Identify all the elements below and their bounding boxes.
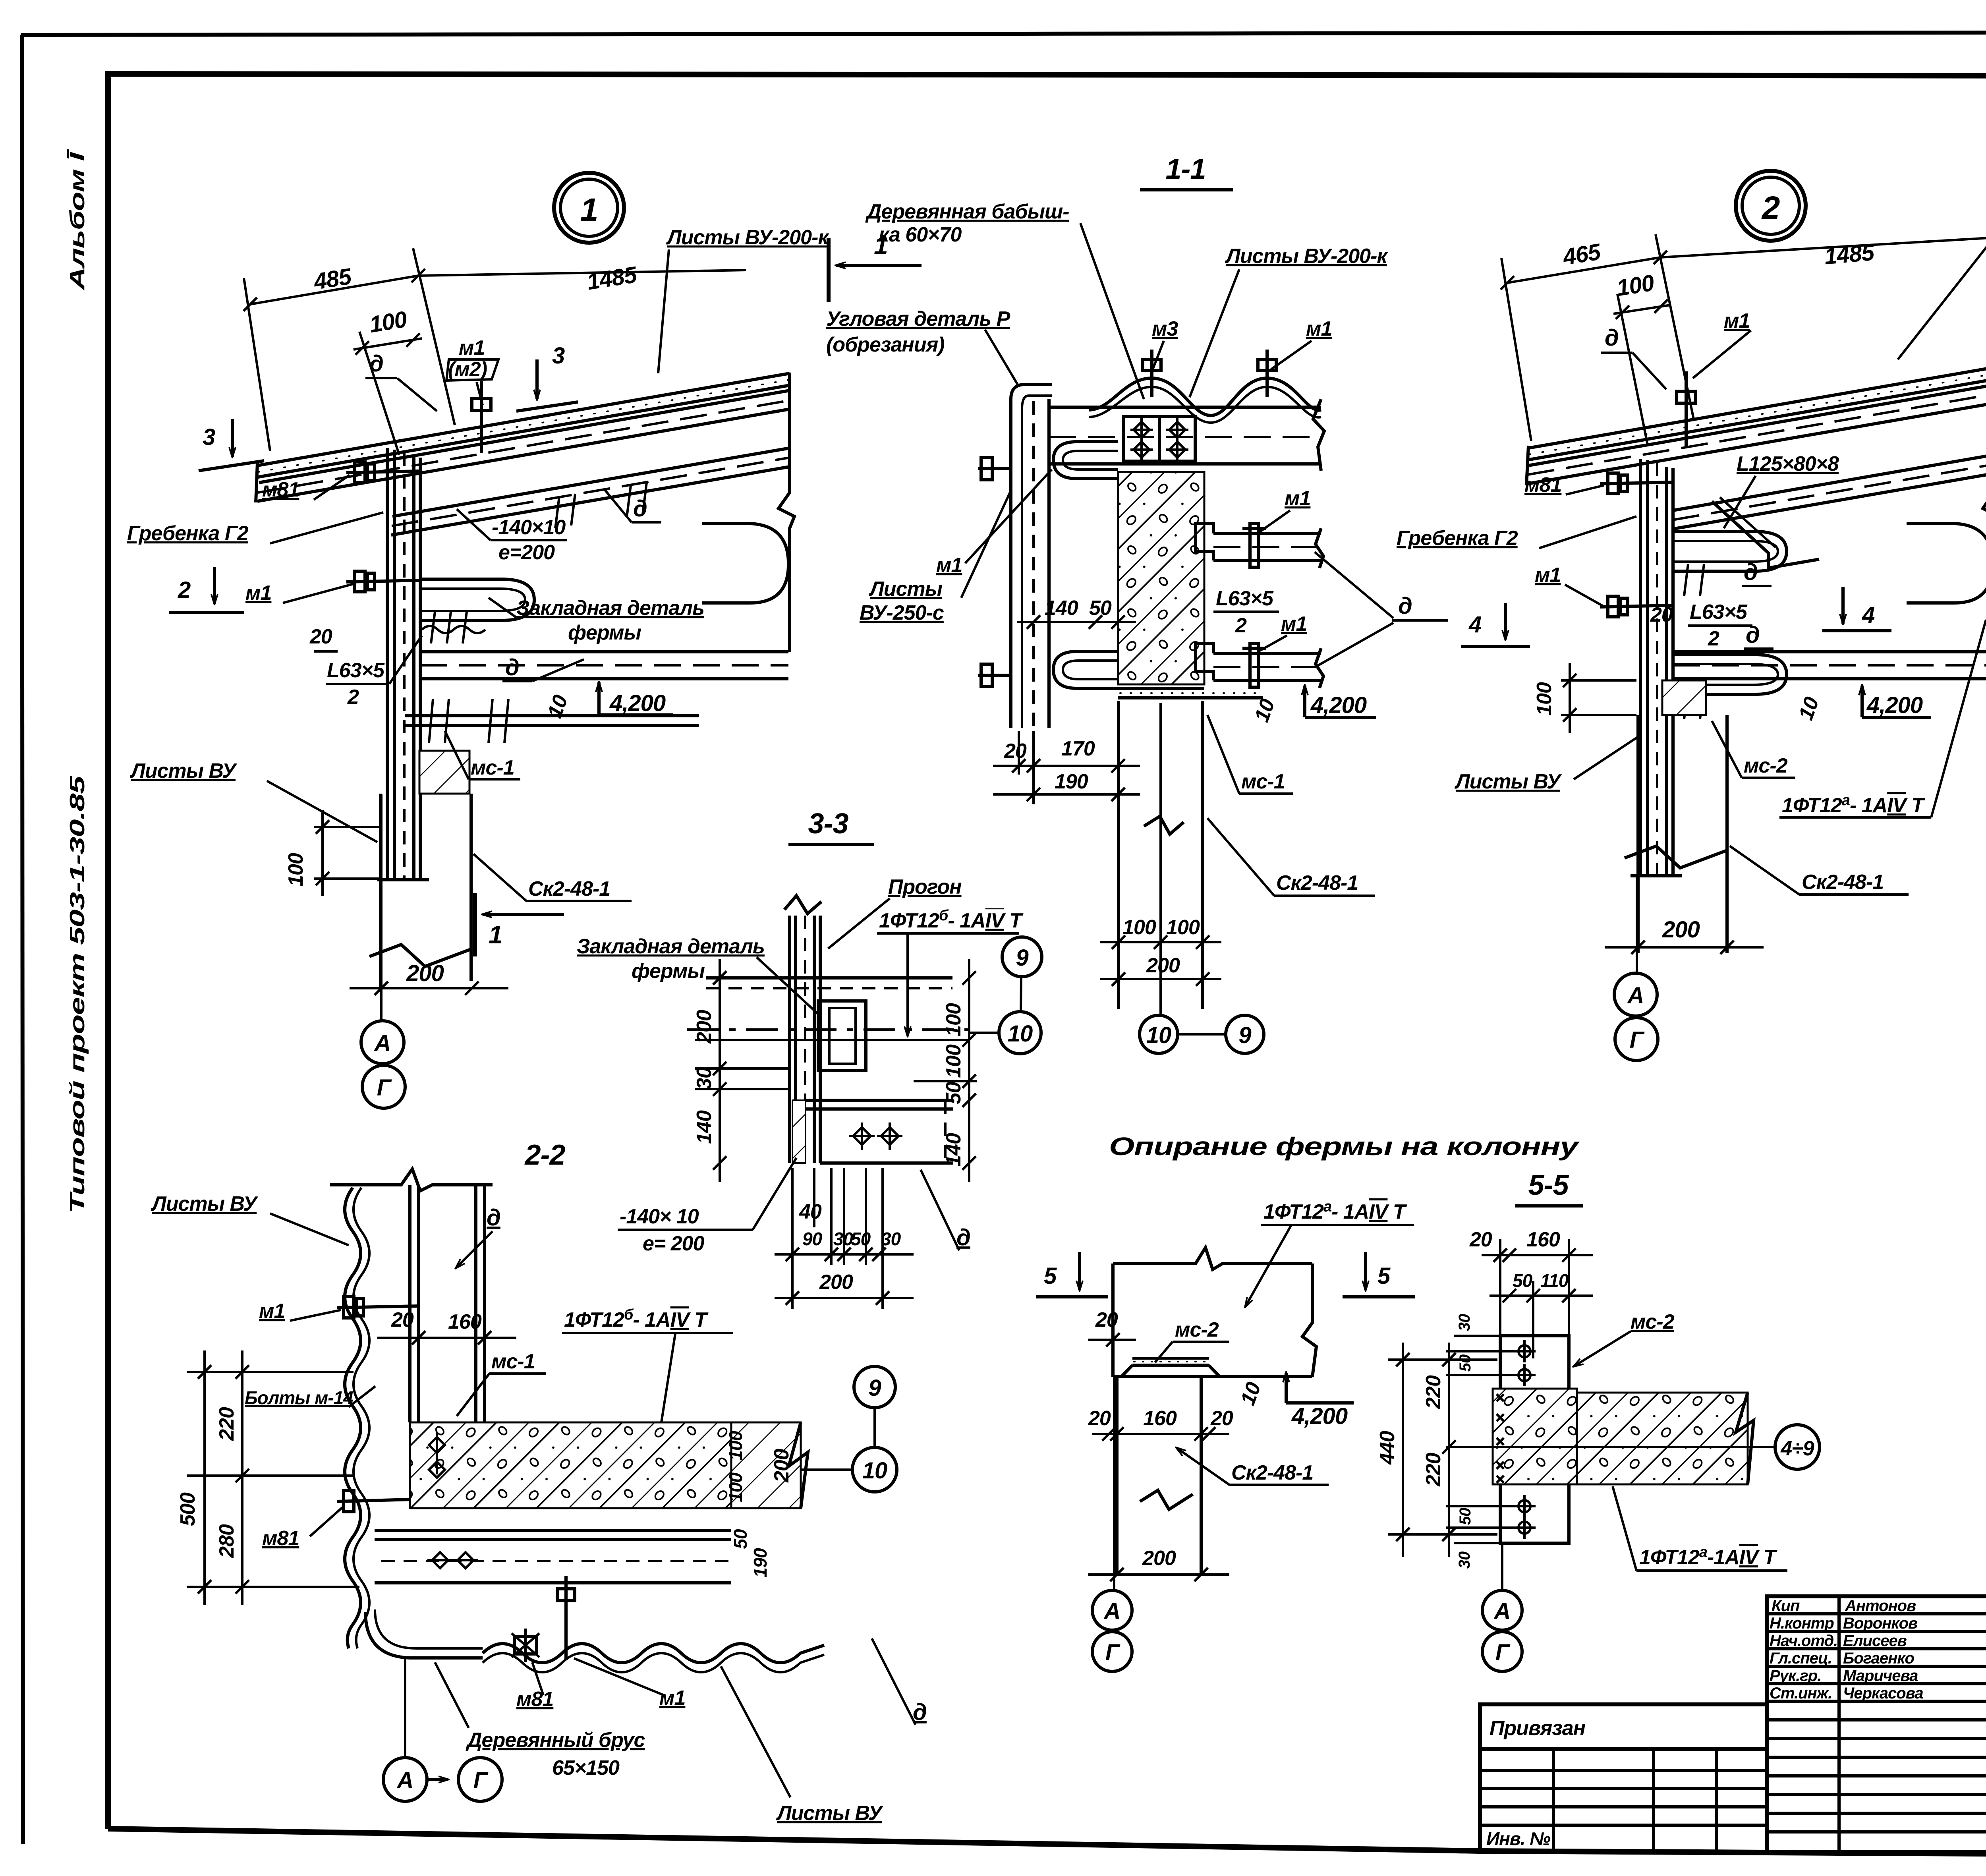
svg-text:2: 2: [1761, 190, 1780, 226]
svg-text:90: 90: [802, 1229, 823, 1249]
weld hatch under U detail: [422, 626, 485, 633]
svg-text:м1: м1: [659, 1687, 685, 1710]
svg-text:А: А: [374, 1030, 391, 1056]
svg-text:-140× 10: -140× 10: [620, 1205, 699, 1228]
svg-text:А: А: [396, 1768, 413, 1793]
plate bolts: [427, 1552, 478, 1568]
svg-text:190: 190: [1055, 770, 1088, 793]
lower bracket plate: [806, 1099, 953, 1102]
svg-text:10: 10: [1008, 1021, 1033, 1047]
svg-text:м81: м81: [516, 1688, 553, 1711]
svg-text:1ФТ12а- 1АIV Т: 1ФТ12а- 1АIV Т: [1782, 792, 1926, 817]
dim line 100: [354, 338, 422, 350]
svg-text:мс-2: мс-2: [1631, 1310, 1675, 1333]
svg-text:100: 100: [725, 1431, 746, 1461]
svg-text:Закладная деталь: Закладная деталь: [516, 597, 704, 620]
svg-text:9: 9: [1238, 1022, 1251, 1048]
svg-text:100: 100: [942, 1003, 965, 1037]
axis bubble A: [1092, 1590, 1132, 1630]
svg-text:мс-2: мс-2: [1175, 1318, 1219, 1341]
svg-text:30: 30: [1456, 1314, 1473, 1331]
svg-text:50: 50: [851, 1229, 871, 1249]
svg-text:20: 20: [1469, 1228, 1492, 1251]
svg-text:20: 20: [1004, 740, 1027, 763]
beam end bulb: [1907, 524, 1986, 603]
wall post channel: [1639, 459, 1642, 876]
svg-text:Воронков: Воронков: [1843, 1615, 1918, 1632]
svg-text:Елисеев: Елисеев: [1843, 1632, 1907, 1650]
axis bubble A: [1482, 1590, 1522, 1630]
detail marker circle 1: [554, 173, 624, 243]
outer left border line: [22, 35, 23, 1844]
column head pad: [419, 751, 469, 794]
svg-text:м81: м81: [262, 1527, 299, 1550]
axis dash line: [687, 1028, 969, 1031]
bolt m1 mid: [346, 580, 420, 582]
embedded U detail: [421, 579, 534, 620]
svg-text:Гребенка Г2: Гребенка Г2: [1397, 527, 1518, 550]
axis bubble G: [1482, 1632, 1522, 1671]
svg-text:9: 9: [868, 1375, 881, 1401]
svg-text:мс-2: мс-2: [1744, 754, 1788, 777]
plate ms-2: [1500, 1336, 1569, 1543]
hatched plate strip: [792, 1100, 806, 1163]
left bolts with nuts: [978, 467, 1011, 470]
svg-text:м1: м1: [1724, 309, 1750, 332]
callout d double leader: [1315, 552, 1393, 618]
svg-text:Листы ВУ: Листы ВУ: [1454, 770, 1562, 793]
svg-text:д: д: [505, 655, 519, 680]
svg-text:1ФТ12а-1АIV Т: 1ФТ12а-1АIV Т: [1639, 1544, 1777, 1569]
axis bubble G: [362, 1065, 405, 1108]
extension lines: [1501, 258, 1531, 441]
beam end bulb: [702, 524, 788, 603]
rafter bolt ticks: [555, 483, 647, 528]
column embedded plate bottom: [1118, 687, 1204, 690]
detail marker circle 2: [1736, 171, 1806, 241]
svg-text:Кип: Кип: [1772, 1597, 1800, 1615]
svg-text:200: 200: [406, 960, 444, 986]
svg-text:Ск2-48-1: Ск2-48-1: [1231, 1461, 1313, 1484]
svg-text:L63×5: L63×5: [327, 659, 385, 682]
svg-text:L125×80×8: L125×80×8: [1737, 452, 1839, 475]
svg-text:e= 200: e= 200: [643, 1232, 705, 1255]
svg-text:160: 160: [1143, 1407, 1177, 1430]
svg-text:40: 40: [799, 1200, 822, 1223]
svg-text:Ск2-48-1: Ск2-48-1: [528, 877, 610, 900]
section cut 1 top: [827, 238, 831, 302]
svg-text:д: д: [487, 1205, 500, 1231]
inner frame bottom line: [108, 1829, 1986, 1857]
corrugated roof sheet band: [1528, 367, 1986, 448]
svg-text:50: 50: [942, 1082, 965, 1104]
svg-text:170: 170: [1061, 737, 1095, 760]
svg-text:2-2: 2-2: [524, 1139, 565, 1171]
top chord beam section: [1049, 406, 1321, 409]
svg-text:Привязан: Привязан: [1489, 1717, 1586, 1740]
svg-text:160: 160: [1526, 1228, 1560, 1251]
svg-text:140: 140: [1045, 597, 1078, 620]
svg-text:Альбом Ī: Альбом Ī: [66, 148, 89, 291]
svg-text:А: А: [1103, 1598, 1121, 1624]
svg-text:20: 20: [1650, 603, 1673, 626]
svg-text:мс-1: мс-1: [1241, 770, 1285, 793]
column: [1115, 1377, 1119, 1575]
svg-text:Прогон: Прогон: [888, 875, 962, 898]
svg-text:1ФТ12б- 1АIV Т: 1ФТ12б- 1АIV Т: [879, 907, 1024, 932]
bottom wavy sheet: [483, 1644, 824, 1663]
svg-text:д: д: [369, 351, 383, 377]
svg-text:20: 20: [1088, 1407, 1111, 1430]
extension verticals: [1018, 731, 1020, 775]
column below: [379, 794, 382, 992]
svg-text:e=200: e=200: [498, 541, 555, 564]
svg-text:1-1: 1-1: [1165, 153, 1206, 185]
svg-text:Г: Г: [1105, 1640, 1121, 1665]
svg-text:Маричева: Маричева: [1843, 1667, 1918, 1685]
svg-text:5: 5: [1044, 1263, 1057, 1289]
axis bubble A: [1614, 973, 1657, 1016]
corrugated wave top: [1089, 378, 1321, 415]
vertical break line right: [1983, 366, 1986, 652]
svg-text:50: 50: [1457, 1508, 1474, 1525]
extension line mid: [413, 248, 455, 425]
left margin vertical captions: [66, 148, 89, 1213]
svg-text:1ФТ12б- 1АIV Т: 1ФТ12б- 1АIV Т: [564, 1306, 709, 1331]
svg-text:4÷9: 4÷9: [1780, 1437, 1814, 1460]
svg-text:А: А: [1493, 1598, 1511, 1624]
title block: [1480, 1580, 1986, 1857]
svg-text:д: д: [1398, 593, 1412, 619]
ms-2 plate: [1132, 1364, 1209, 1367]
svg-text:220: 220: [215, 1407, 238, 1441]
svg-text:9: 9: [1016, 945, 1028, 971]
bobbin box: [818, 1001, 866, 1070]
rafter band d: [392, 448, 790, 516]
svg-text:20: 20: [309, 625, 332, 648]
axis line: [380, 794, 383, 1020]
plate bolts: [1513, 1340, 1536, 1539]
svg-text:2: 2: [347, 686, 359, 709]
left table row line under Привязан: [1480, 1747, 1767, 1751]
svg-text:Инв. №: Инв. №: [1486, 1828, 1551, 1849]
svg-text:м1: м1: [1306, 317, 1332, 340]
dim line 465-1485: [1507, 234, 1986, 283]
support plate lines: [405, 714, 699, 717]
axis bubble G: [1615, 1018, 1658, 1061]
svg-text:3: 3: [552, 343, 565, 369]
vertical wavy sheet: [345, 1188, 361, 1648]
roof bolts m3 m1: [1150, 350, 1153, 397]
svg-text:м1: м1: [245, 582, 271, 605]
svg-text:2: 2: [178, 577, 191, 603]
svg-text:-140×10: -140×10: [492, 516, 566, 539]
ridge bolt m1: [1685, 371, 1688, 447]
svg-text:140: 140: [693, 1110, 716, 1144]
svg-text:1ФТ12а- 1АIV Т: 1ФТ12а- 1АIV Т: [1263, 1198, 1407, 1223]
svg-text:д: д: [633, 496, 647, 522]
svg-text:200: 200: [770, 1449, 793, 1483]
svg-text:280: 280: [215, 1524, 238, 1558]
top chord band: [259, 390, 790, 483]
svg-text:110: 110: [1540, 1270, 1569, 1291]
svg-text:1: 1: [489, 920, 502, 949]
svg-text:Рук.гр.: Рук.гр.: [1770, 1667, 1821, 1685]
svg-text:А: А: [1627, 983, 1644, 1009]
svg-text:Закладная деталь: Закладная деталь: [577, 935, 765, 958]
item bubbles 10-9: [1140, 1015, 1178, 1053]
elevation 4.200: [597, 682, 601, 715]
svg-text:2: 2: [1235, 614, 1247, 637]
column below: [1117, 701, 1120, 1009]
svg-text:10: 10: [1146, 1022, 1171, 1048]
svg-text:Угловая деталь Р: Угловая деталь Р: [826, 307, 1010, 330]
svg-text:100: 100: [1166, 916, 1200, 939]
svg-text:фермы: фермы: [568, 621, 641, 644]
svg-text:м1: м1: [459, 336, 485, 359]
dim 200 bottom: [350, 987, 508, 989]
svg-text:Черкасова: Черкасова: [1843, 1685, 1923, 1702]
svg-text:10: 10: [862, 1458, 887, 1484]
svg-text:ВУ-250-с: ВУ-250-с: [860, 601, 944, 624]
item bubble 10: [999, 1012, 1041, 1054]
bottom chord beam: [1673, 650, 1986, 653]
embedded U detail upper: [1674, 531, 1787, 571]
beam d section upper: [1213, 532, 1321, 535]
svg-text:4,200: 4,200: [1291, 1403, 1348, 1429]
svg-text:4: 4: [1468, 612, 1482, 638]
svg-text:Листы ВУ: Листы ВУ: [129, 759, 238, 782]
names table outline: [1767, 1596, 1986, 1852]
item bubble 9: [1002, 937, 1042, 977]
svg-text:м81: м81: [262, 478, 299, 501]
bracket bolts: [849, 1123, 902, 1150]
column below: [1636, 715, 1640, 953]
extension line left: [244, 278, 270, 451]
svg-text:м1: м1: [936, 554, 962, 577]
extension line 100 left: [359, 332, 399, 455]
svg-text:200: 200: [819, 1271, 853, 1294]
svg-text:м1: м1: [259, 1300, 285, 1323]
bottom bend plate: [365, 1612, 483, 1658]
left table column lines: [1552, 1749, 1555, 1852]
svg-text:д: д: [1605, 325, 1619, 351]
hatched column block: [1493, 1389, 1577, 1484]
svg-text:м3: м3: [1152, 317, 1178, 340]
svg-text:Листы ВУ: Листы ВУ: [151, 1192, 259, 1215]
svg-text:ка 60×70: ка 60×70: [879, 223, 962, 246]
svg-text:200: 200: [1146, 954, 1180, 977]
svg-text:Г: Г: [377, 1075, 392, 1101]
svg-text:Болты м-14: Болты м-14: [245, 1387, 353, 1408]
svg-text:д: д: [1744, 559, 1758, 585]
svg-text:440: 440: [1376, 1431, 1399, 1465]
left corner bracket: [1011, 384, 1052, 728]
svg-text:Деревянный брус: Деревянный брус: [466, 1729, 645, 1752]
svg-text:30: 30: [1456, 1551, 1473, 1569]
svg-text:220: 220: [1422, 1453, 1445, 1487]
svg-text:20: 20: [1095, 1308, 1118, 1331]
svg-text:4,200: 4,200: [1866, 692, 1923, 718]
bolt m81: [1600, 482, 1673, 484]
column break zigzag: [369, 945, 473, 966]
svg-text:4,200: 4,200: [1310, 692, 1367, 718]
svg-text:140: 140: [942, 1133, 965, 1167]
svg-text:5-5: 5-5: [1528, 1169, 1569, 1201]
svg-text:100: 100: [284, 853, 307, 887]
rafter band d: [1673, 455, 1986, 510]
bolt m1: [337, 1306, 419, 1308]
elevation 4.200: [1860, 686, 1864, 717]
U bolts: [1053, 442, 1118, 479]
names table row lines: [1767, 1612, 1986, 1615]
top chord band: [1528, 385, 1986, 466]
bolt leader lines: [1446, 1350, 1518, 1352]
axis bubbles A->G: [383, 1758, 427, 1801]
svg-text:Г: Г: [1630, 1027, 1645, 1053]
svg-text:Богаенко: Богаенко: [1843, 1650, 1915, 1667]
svg-text:Ск2-48-1: Ск2-48-1: [1276, 871, 1358, 895]
column bolts in slab: [429, 1432, 445, 1478]
svg-text:2: 2: [1708, 627, 1719, 650]
svg-text:Нач.отд.: Нач.отд.: [1770, 1632, 1837, 1650]
svg-text:20: 20: [391, 1308, 414, 1331]
svg-text:Гребенка Г2: Гребенка Г2: [127, 522, 249, 545]
beam d section lower: [1213, 652, 1321, 655]
svg-text:Антонов: Антонов: [1845, 1597, 1916, 1615]
svg-text:м1: м1: [1281, 612, 1307, 636]
svg-text:50: 50: [1457, 1354, 1474, 1372]
svg-text:50: 50: [730, 1529, 751, 1549]
purlin strip: [788, 916, 791, 1163]
svg-text:Листы ВУ-200-к: Листы ВУ-200-к: [1225, 245, 1388, 268]
svg-text:200: 200: [1662, 917, 1700, 943]
svg-text:30: 30: [693, 1067, 716, 1090]
extension horizontals: [1454, 1335, 1505, 1337]
svg-text:м1: м1: [1535, 564, 1561, 587]
svg-text:1: 1: [580, 192, 598, 228]
lower bolt m81: [337, 1499, 411, 1501]
left attachment table outline: [1480, 1704, 1767, 1852]
svg-text:(обрезания): (обрезания): [826, 333, 945, 356]
svg-text:мс-1: мс-1: [491, 1350, 535, 1373]
svg-text:100: 100: [1533, 682, 1556, 716]
svg-text:220: 220: [1422, 1375, 1445, 1409]
svg-text:500: 500: [176, 1492, 199, 1526]
item bubble 9 right of slab: [854, 1366, 895, 1408]
bolt m1: [1600, 605, 1673, 607]
svg-text:4: 4: [1862, 602, 1875, 628]
svg-text:3: 3: [203, 424, 215, 450]
elevation 4.200: [1285, 1373, 1288, 1403]
svg-text:Ст.инж.: Ст.инж.: [1770, 1685, 1832, 1702]
dim line 485-1485: [250, 270, 746, 304]
axis line to bubble 4-9: [1446, 1446, 1775, 1448]
svg-text:Типовой проект 503-1-30.85: Типовой проект 503-1-30.85: [66, 775, 89, 1213]
bottom chord beam: [420, 650, 788, 653]
ridge bolt m1: [480, 381, 483, 453]
svg-text:100: 100: [942, 1044, 965, 1078]
vertical break line right: [779, 373, 794, 652]
wall post channel: [386, 448, 389, 880]
svg-text:Г: Г: [473, 1768, 489, 1793]
svg-text:65×150: 65×150: [552, 1756, 620, 1779]
svg-text:L63×5: L63×5: [1690, 601, 1748, 624]
svg-text:100: 100: [725, 1472, 746, 1502]
svg-text:фермы: фермы: [632, 960, 705, 983]
outer top border line: [21, 32, 1986, 35]
svg-text:Опирание фермы на колонну: Опирание фермы на колонну: [1109, 1132, 1580, 1161]
angle L125x80x8: [1712, 501, 1819, 568]
vertical bolt m1: [564, 1576, 568, 1660]
svg-text:4,200: 4,200: [609, 690, 666, 716]
svg-text:1485: 1485: [1823, 240, 1876, 270]
column head pad: [1662, 680, 1706, 715]
svg-text:Листы: Листы: [868, 578, 943, 601]
embedded U detail lower: [1674, 655, 1787, 694]
names table column lines: [1837, 1596, 1841, 1852]
svg-text:Листы ВУ: Листы ВУ: [776, 1802, 884, 1825]
bolt plate squares: [1124, 417, 1159, 461]
svg-text:20: 20: [1210, 1407, 1233, 1430]
left end cap of bands: [256, 463, 257, 502]
svg-text:50: 50: [1513, 1270, 1533, 1291]
svg-text:Листы ВУ-200-к: Листы ВУ-200-к: [666, 226, 829, 249]
svg-text:L63×5: L63×5: [1216, 587, 1274, 610]
svg-text:30: 30: [881, 1229, 901, 1249]
top plate edge: [706, 976, 952, 980]
item bubble 10 right of slab: [852, 1447, 897, 1492]
svg-text:160: 160: [448, 1310, 482, 1333]
corrugated roof sheet band: [257, 373, 790, 466]
axis bubble G: [1092, 1632, 1132, 1671]
svg-text:100: 100: [1122, 916, 1156, 939]
elevation 4.200: [1303, 686, 1306, 717]
svg-text:мс-1: мс-1: [471, 756, 514, 779]
svg-text:3-3: 3-3: [808, 808, 848, 840]
plates under slab: [375, 1529, 731, 1532]
column verticals: [408, 1185, 411, 1422]
hatched slab concrete: [410, 1422, 731, 1508]
svg-text:200: 200: [1142, 1547, 1176, 1570]
svg-text:5: 5: [1377, 1263, 1391, 1289]
svg-text:м81: м81: [1524, 473, 1561, 497]
svg-text:м1: м1: [1285, 487, 1310, 510]
left table row lines: [1480, 1769, 1767, 1772]
axis bubble A: [361, 1021, 404, 1064]
svg-text:Ск2-48-1: Ск2-48-1: [1802, 871, 1884, 894]
plate bolts: [429, 699, 508, 743]
svg-text:190: 190: [750, 1548, 771, 1578]
svg-text:(м2): (м2): [448, 358, 487, 381]
bolt with cross m81: [514, 1636, 537, 1654]
svg-text:Н.контр: Н.контр: [1770, 1615, 1834, 1632]
m1 bolts through beams: [1250, 524, 1259, 567]
top break line: [330, 1169, 493, 1191]
svg-text:Деревянная бабыш-: Деревянная бабыш-: [865, 200, 1069, 223]
truss bottom chord: [1113, 1248, 1312, 1269]
hatched slab tail: [731, 1422, 801, 1508]
hatched slab right: [1577, 1393, 1748, 1484]
section cut 1 bottom: [473, 893, 477, 956]
svg-text:д: д: [1746, 622, 1760, 648]
extension horizontals: [695, 1039, 969, 1041]
hatched concrete column: [1118, 472, 1204, 684]
svg-text:Г: Г: [1495, 1640, 1511, 1665]
svg-text:Гл.спец.: Гл.спец.: [1770, 1650, 1832, 1667]
bolt m81: [346, 471, 420, 473]
post base tick: [377, 878, 429, 881]
